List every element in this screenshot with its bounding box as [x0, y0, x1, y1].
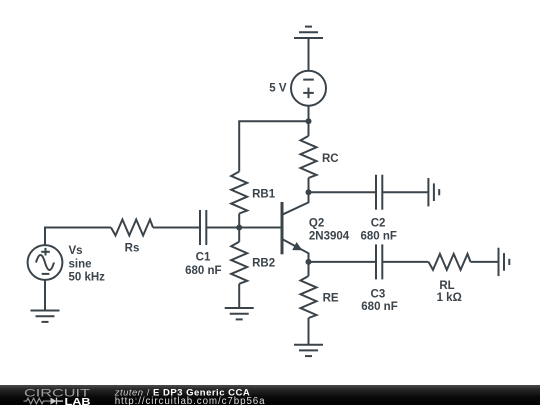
svg-text:http://circuitlab.com/c7bp56a: http://circuitlab.com/c7bp56a: [115, 396, 266, 405]
svg-text:Vs: Vs: [69, 245, 83, 257]
wire RE to ground: [308, 318, 310, 345]
footer bar: [0, 385, 540, 405]
wire C1 to node D: [206, 227, 239, 229]
wire RL to ground: [471, 261, 499, 263]
transistor Q2 body bar: [281, 202, 284, 254]
wire top ground to V1: [308, 38, 310, 71]
wire node A to RC: [308, 121, 310, 136]
node A junction dot: [306, 118, 312, 124]
resistor RL: [429, 254, 471, 270]
svg-text:Q2: Q2: [309, 218, 324, 230]
svg-text:Rs: Rs: [125, 243, 140, 255]
capacitor C2: [376, 175, 382, 210]
capacitor C1: [200, 210, 206, 245]
node B junction dot: [306, 189, 312, 195]
wire Vs top to Rs: [45, 228, 111, 246]
Q2 emitter lead: [283, 240, 309, 262]
svg-text:2N3904: 2N3904: [309, 231, 350, 243]
wire RC to node B: [308, 178, 310, 192]
svg-text:LAB: LAB: [65, 395, 91, 405]
resistor RE: [301, 276, 317, 318]
node D junction dot: [236, 225, 242, 231]
resistor RC: [301, 136, 317, 178]
logo resistor squiggle: [24, 398, 51, 404]
wire base: node D to Q2: [239, 227, 282, 229]
ground G4 (below RE): [294, 345, 323, 356]
ground G2 (below RB2): [225, 308, 254, 319]
wire Rs to C1: [153, 227, 200, 229]
wire node C to C3: [309, 261, 377, 263]
wire C3 to RL: [382, 261, 428, 263]
svg-text:C1: C1: [196, 252, 211, 264]
ground G1 (top, flipped up): [294, 27, 323, 38]
resistor Rs: [111, 220, 153, 236]
wire V1 to node A: [308, 106, 310, 122]
ground G3 (right of C2, rotated): [428, 178, 439, 206]
svg-text:680 nF: 680 nF: [361, 301, 397, 313]
svg-text:RE: RE: [323, 293, 339, 305]
svg-text:50 kHz: 50 kHz: [69, 271, 106, 283]
svg-text:RL: RL: [439, 280, 454, 292]
Q2 emitter arrow: [292, 242, 302, 250]
svg-text:1 kΩ: 1 kΩ: [437, 292, 462, 304]
svg-text:5 V: 5 V: [269, 83, 287, 95]
svg-text:RB2: RB2: [252, 257, 275, 269]
wire Vs bottom to ground: [44, 280, 46, 311]
logo diode symbol: [51, 397, 57, 404]
svg-text:680 nF: 680 nF: [185, 265, 221, 277]
capacitor C3: [376, 244, 382, 279]
Q2 collector lead: [283, 192, 309, 214]
ground G5 (right of RL, rotated): [499, 248, 510, 276]
ground G6 (below Vs): [31, 311, 60, 322]
svg-text:680 nF: 680 nF: [360, 231, 396, 243]
wire node A to RB1 top: [239, 121, 308, 171]
svg-text:RC: RC: [322, 153, 339, 165]
resistor RB2: [231, 242, 247, 284]
node C junction dot: [306, 259, 312, 265]
wire RB1 to node D: [238, 214, 240, 228]
wire C2 to ground: [382, 191, 428, 193]
voltage source Vs (sine): [28, 245, 63, 280]
svg-text:RB1: RB1: [252, 189, 276, 201]
svg-text:C2: C2: [371, 218, 386, 230]
svg-text:sine: sine: [69, 259, 92, 271]
wire node D to RB2: [238, 228, 240, 242]
wire node C to RE: [308, 262, 310, 276]
wire node B to C2: [309, 191, 377, 193]
wire RB2 to ground: [238, 284, 240, 308]
voltage source V1 5V: [291, 71, 326, 106]
svg-text:C3: C3: [371, 288, 386, 300]
resistor RB1: [231, 172, 247, 214]
